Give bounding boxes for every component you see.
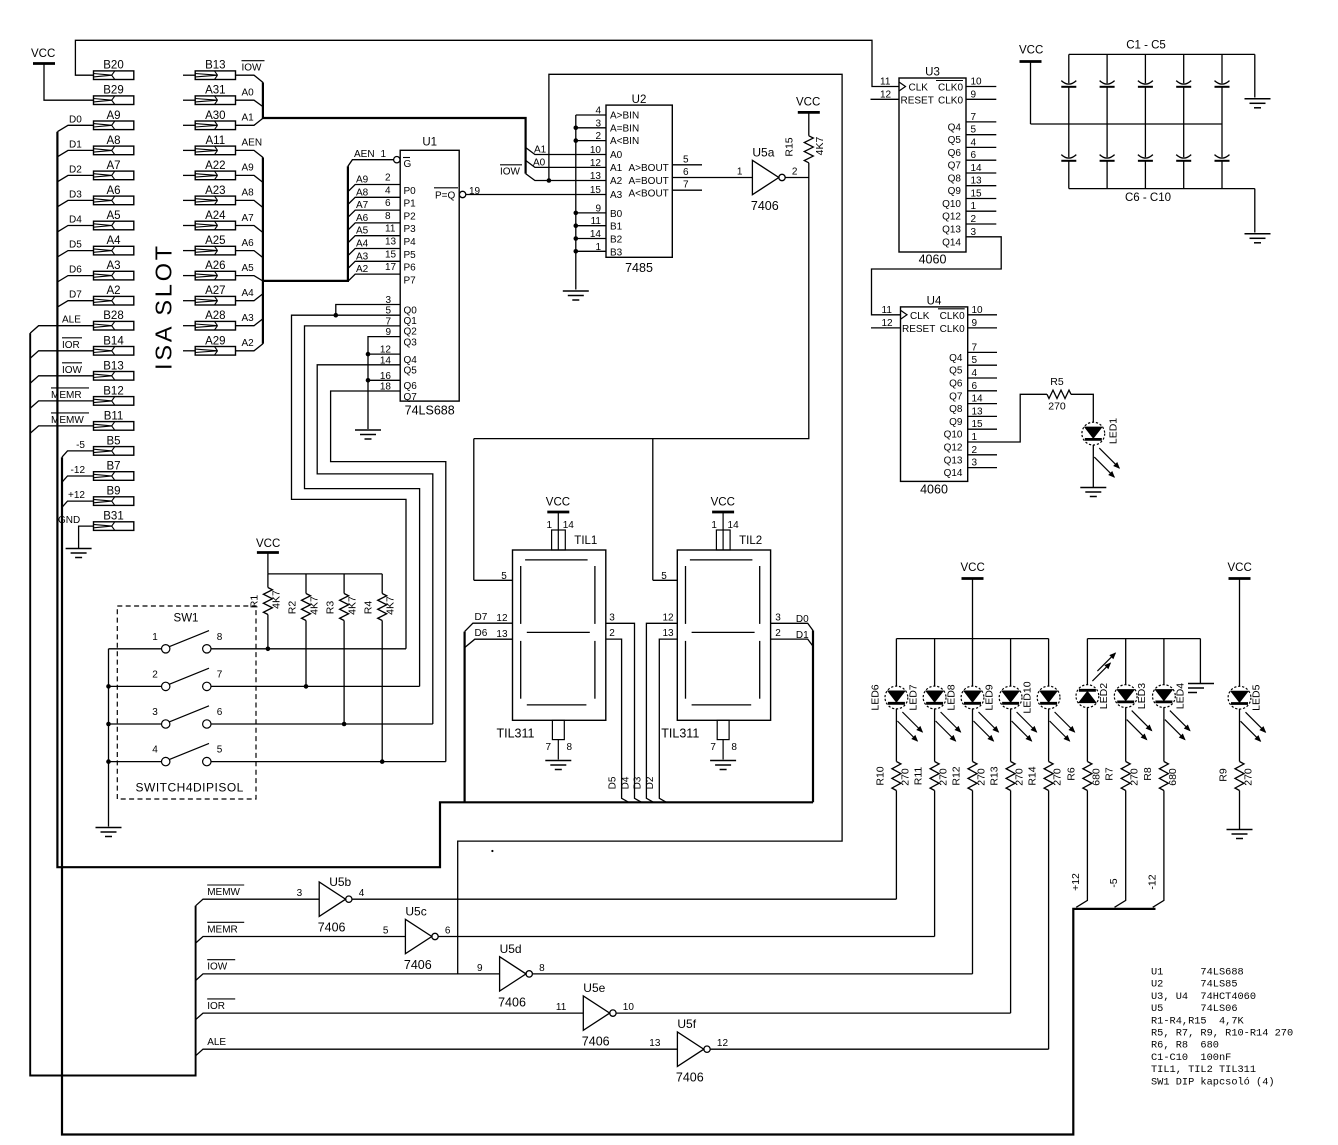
svg-text:A11: A11 <box>205 135 225 147</box>
svg-text:TIL311: TIL311 <box>497 727 535 741</box>
svg-text:A1: A1 <box>610 163 623 174</box>
wire rail to LED9 <box>1010 639 1012 687</box>
U4 pin 12 RESET stub <box>871 327 901 329</box>
svg-text:Q5: Q5 <box>949 366 963 377</box>
svg-text:Q9: Q9 <box>948 186 962 197</box>
svg-text:5: 5 <box>972 355 978 366</box>
wire A4 from pin A27 to bus2 <box>236 294 263 301</box>
svg-text:B14: B14 <box>103 335 124 347</box>
LED1 emission arrows <box>1099 448 1119 468</box>
svg-text:8: 8 <box>567 742 573 753</box>
U3 output stub pin 10 <box>966 86 996 88</box>
svg-text:D0: D0 <box>69 114 82 125</box>
bus1 exit wire A1 to U2 pin 10 <box>526 148 606 155</box>
svg-text:A3: A3 <box>610 190 623 201</box>
svg-text:5: 5 <box>501 571 507 582</box>
svg-text:7406: 7406 <box>318 921 346 935</box>
svg-text:D4: D4 <box>620 776 631 789</box>
wire U5d output to R12 <box>532 973 972 975</box>
svg-text:2: 2 <box>152 669 158 680</box>
svg-text:U5f: U5f <box>677 1017 696 1031</box>
svg-text:P4: P4 <box>404 237 417 248</box>
wire B20 to top clock line to U3 CLK <box>75 40 899 86</box>
svg-text:U4: U4 <box>927 295 942 307</box>
svg-text:1: 1 <box>595 242 601 253</box>
U4 output stub pin 3 <box>968 467 997 469</box>
svg-text:270: 270 <box>1052 768 1064 786</box>
svg-text:A24: A24 <box>205 210 226 222</box>
wire GND pin B31 to ground <box>79 526 94 548</box>
junction <box>574 236 579 241</box>
svg-text:B12: B12 <box>103 385 123 397</box>
wire TIL1 pin 3 D4 <box>606 623 642 802</box>
svg-text:A30: A30 <box>205 110 225 122</box>
data bus D0-D7 (thick): down, right, up, right <box>57 132 813 868</box>
svg-text:2: 2 <box>385 173 391 184</box>
svg-text:B13: B13 <box>103 360 123 372</box>
LED7 emission arrows <box>941 712 961 732</box>
wire D2 from pin A7 <box>57 175 93 181</box>
svg-text:15: 15 <box>972 419 984 430</box>
svg-text:Q7: Q7 <box>404 392 418 403</box>
LED6-10 anode rail <box>896 638 1048 640</box>
svg-text:10: 10 <box>971 77 983 88</box>
svg-text:2: 2 <box>971 214 977 225</box>
junction R2/row2 <box>304 684 309 689</box>
svg-text:D1: D1 <box>796 630 809 641</box>
svg-text:7406: 7406 <box>751 199 779 213</box>
wire -5 from pin B5 <box>62 451 94 457</box>
svg-text:A8: A8 <box>106 135 120 147</box>
svg-text:8: 8 <box>539 963 545 974</box>
svg-text:4: 4 <box>595 106 601 117</box>
junction <box>106 684 111 689</box>
bus wire D0/D1 vertical (thick) <box>812 631 814 803</box>
LED2-4 cathode rail to ground <box>1087 638 1200 640</box>
svg-text:A7: A7 <box>242 213 255 224</box>
resistor R2 4K7 <box>305 574 307 594</box>
wire MEMR from bundle to inverter input <box>196 937 406 944</box>
svg-text:B11: B11 <box>104 410 124 422</box>
wire A6 from pin A25 to bus2 <box>236 251 263 258</box>
ground symbol right of C6-C10 <box>1245 233 1271 235</box>
svg-text:A23: A23 <box>205 185 225 197</box>
svg-text:R14: R14 <box>1027 766 1039 785</box>
svg-text:U5b: U5b <box>329 875 351 889</box>
junction Q0/Q1 <box>334 313 339 318</box>
svg-text:Q7: Q7 <box>948 161 962 172</box>
svg-text:A2: A2 <box>242 338 255 349</box>
wire R6 to +12 bus <box>1076 791 1087 908</box>
wire TIL2 pin 12 D3 <box>646 623 677 802</box>
svg-text:7: 7 <box>683 180 689 191</box>
wire AEN to U1 pin 1 <box>348 160 394 167</box>
junction <box>574 223 579 228</box>
svg-text:-5: -5 <box>1108 878 1120 887</box>
wire LED2 to R6 <box>1086 707 1088 761</box>
wire LED1 to ground <box>1092 445 1094 487</box>
wire U4 Q12 pin 1 to R5 <box>968 394 1047 442</box>
wire SW1 common left rail to ground <box>108 649 110 827</box>
U3 output stub pin 13 <box>966 185 996 187</box>
wire D0 from pin A9 <box>57 125 93 131</box>
svg-text:AEN: AEN <box>242 138 263 149</box>
svg-text:A8: A8 <box>242 188 255 199</box>
svg-text:9: 9 <box>595 203 601 214</box>
resistor R4 4K7 <box>381 574 383 594</box>
svg-text:ISA SLOT: ISA SLOT <box>150 243 176 370</box>
SW1 dashed box <box>117 606 256 799</box>
svg-text:U5d: U5d <box>500 942 522 956</box>
wire rail to LED2 <box>1086 639 1088 685</box>
inverter U5d 7406 <box>500 957 526 991</box>
U3 output stub pin 14 <box>966 172 996 174</box>
U3 4060 counter box <box>899 78 966 252</box>
U3 clock wedge pin 11 <box>899 82 906 91</box>
bus1 IOW/A0/A1 (thick): down then right to U2 area <box>263 82 526 173</box>
svg-text:CLK: CLK <box>910 311 930 322</box>
wire D3 from pin A6 <box>57 200 93 206</box>
wire R9 to ground <box>1239 791 1241 830</box>
svg-text:Q6: Q6 <box>404 381 418 392</box>
U4 output stub pin 6 <box>968 390 997 392</box>
svg-text:CLK: CLK <box>909 83 929 94</box>
svg-text:A25: A25 <box>205 235 225 247</box>
svg-text:MEMW: MEMW <box>51 415 84 426</box>
svg-text:GND: GND <box>58 515 80 526</box>
svg-text:A0: A0 <box>533 157 546 168</box>
svg-text:1: 1 <box>971 201 977 212</box>
svg-text:A8: A8 <box>356 187 369 198</box>
wire U5f output to R14 <box>710 1048 1048 1050</box>
svg-text:A<BOUT: A<BOUT <box>629 189 669 200</box>
svg-text:8: 8 <box>217 632 223 643</box>
svg-text:1: 1 <box>737 167 743 178</box>
U3 output stub pin 15 <box>966 198 996 200</box>
svg-text:4: 4 <box>359 888 365 899</box>
switch SW1 pole 4-5 <box>162 757 170 765</box>
svg-text:A5: A5 <box>356 226 369 237</box>
svg-text:B1: B1 <box>610 222 623 233</box>
wire rail to LED6 <box>895 639 897 687</box>
svg-text:SWITCH4DIPISOL: SWITCH4DIPISOL <box>136 781 244 795</box>
svg-text:6: 6 <box>385 198 391 209</box>
svg-text:IOW: IOW <box>500 167 521 178</box>
wire rail to LED7 <box>934 639 936 687</box>
resistor R12 270 <box>968 762 977 791</box>
svg-text:R6: R6 <box>1065 767 1077 781</box>
wire U5a output rail down and left to TIL strobes <box>474 178 809 439</box>
svg-text:D0: D0 <box>796 614 809 625</box>
svg-text:VCC: VCC <box>256 538 280 550</box>
svg-text:270: 270 <box>1048 401 1066 413</box>
svg-text:VCC: VCC <box>711 497 735 509</box>
svg-text:B28: B28 <box>103 310 123 322</box>
svg-text:-5: -5 <box>76 440 85 451</box>
capacitor C7 <box>1106 124 1108 157</box>
U2 output stub pin 5 A>BOUT <box>672 164 702 166</box>
wire A30/A1 to bus1 <box>236 118 263 125</box>
junction R3/row3 <box>342 722 347 727</box>
wire LED9 to R13 <box>1010 709 1012 762</box>
svg-text:R11: R11 <box>913 767 925 786</box>
U4 4060 counter box <box>901 307 968 482</box>
svg-text:13: 13 <box>971 176 983 187</box>
TIL2 seven-segment digit <box>690 559 753 561</box>
capacitor C3 <box>1144 54 1146 83</box>
wire R11 down to inverter output <box>934 791 936 937</box>
wire switch left contact <box>109 761 162 763</box>
wire switch left contact <box>109 723 162 725</box>
svg-text:ALE: ALE <box>62 315 81 326</box>
resistor R15 4K7 pullup <box>808 112 810 135</box>
svg-text:5: 5 <box>661 571 667 582</box>
svg-text:15: 15 <box>385 249 397 260</box>
svg-text:13: 13 <box>662 628 674 639</box>
svg-text:4: 4 <box>152 745 158 756</box>
wire LED4 to R8 <box>1163 707 1165 761</box>
svg-text:9: 9 <box>477 963 483 974</box>
U1 pin 19 P=Q output bubble <box>459 191 465 197</box>
ground symbol under SW1 <box>96 827 122 829</box>
wire D4 from pin A5 <box>57 226 93 232</box>
svg-text:Q3: Q3 <box>404 337 418 348</box>
display TIL1 TIL311 box <box>513 550 606 720</box>
svg-text:IOW: IOW <box>62 365 83 376</box>
svg-text:6: 6 <box>445 926 451 937</box>
svg-text:A7: A7 <box>106 160 120 172</box>
svg-text:7406: 7406 <box>676 1071 704 1085</box>
wire MEMW from pin B11 <box>30 426 93 433</box>
wire IOR from bundle to inverter input <box>196 1013 584 1020</box>
wire TIL1 pin 13 D6 <box>465 639 513 647</box>
svg-text:B5: B5 <box>106 435 120 447</box>
wire TIL1 pin5 strobe drop <box>473 439 475 581</box>
svg-text:A6: A6 <box>356 213 369 224</box>
ground symbol under TIL1 <box>545 760 571 762</box>
LED2 emission arrows <box>1097 653 1115 671</box>
inverter U5f 7406 <box>677 1032 703 1066</box>
svg-text:3: 3 <box>297 888 303 899</box>
svg-text:A29: A29 <box>205 335 225 347</box>
wire SW1 row2 right <box>211 685 420 687</box>
svg-text:B3: B3 <box>610 247 623 258</box>
svg-text:D6: D6 <box>69 265 82 276</box>
U4 output stub pin 5 <box>968 364 997 366</box>
svg-text:11: 11 <box>591 216 602 227</box>
svg-text:11: 11 <box>556 1002 567 1013</box>
svg-text:Q10: Q10 <box>944 430 963 441</box>
svg-text:LED10: LED10 <box>1022 681 1034 713</box>
wire U2 pin 9 B0 <box>576 212 606 214</box>
wire A3 from pin A28 to bus2 <box>236 319 263 326</box>
svg-text:11: 11 <box>385 224 396 235</box>
svg-text:2: 2 <box>775 628 781 639</box>
wire LED8 to R12 <box>972 709 974 762</box>
wire A8 from pin A23 to bus2 <box>236 200 263 207</box>
ground symbol right of C1-C5 <box>1245 98 1271 100</box>
svg-text:A1: A1 <box>534 145 547 156</box>
wire U1 Q3 to ground rail <box>368 337 400 429</box>
svg-text:680: 680 <box>1090 768 1102 786</box>
svg-text:R5, R7, R9, R10-R14 270: R5, R7, R9, R10-R14 270 <box>1151 1028 1293 1040</box>
svg-text:3: 3 <box>972 458 978 469</box>
wire R10 down to inverter output <box>895 791 897 900</box>
svg-text:Q6: Q6 <box>948 148 962 159</box>
wire U3 Q14 pin3 cascade to U4 CLK pin 11 <box>872 237 1002 315</box>
svg-text:VCC: VCC <box>31 48 55 60</box>
wire SW1 row4 right <box>211 761 446 763</box>
wire TIL1 pin 2 D5 <box>606 639 629 802</box>
svg-text:A3: A3 <box>242 313 255 324</box>
capacitor C10 <box>1221 124 1223 157</box>
resistor R8 680 <box>1159 762 1168 791</box>
svg-text:6: 6 <box>972 381 978 392</box>
svg-text:MEMR: MEMR <box>207 924 238 935</box>
wire A7 from pin A24 to bus2 <box>236 226 263 233</box>
wire A7 from bus2 to U1 pin 6 (P2) <box>348 210 400 217</box>
svg-text:P3: P3 <box>404 224 417 235</box>
svg-text:14: 14 <box>728 520 740 531</box>
svg-text:1: 1 <box>381 149 387 160</box>
wire IOR from pin B14 <box>30 351 93 358</box>
wire U1 Q7 to SW1 row 4 <box>331 391 446 762</box>
svg-text:P7: P7 <box>404 275 417 286</box>
U4 output stub pin 7 <box>968 351 997 353</box>
capacitor mid rail <box>1031 123 1223 125</box>
LED2 <box>1076 685 1099 708</box>
svg-text:2: 2 <box>792 167 798 178</box>
svg-text:R1-R4,R15 4,7K: R1-R4,R15 4,7K <box>1151 1015 1245 1027</box>
switch SW1 pole 1-8 <box>162 645 170 653</box>
wire TIL2 pin 5 strobe <box>653 579 678 581</box>
svg-text:R8: R8 <box>1142 767 1154 781</box>
svg-text:270: 270 <box>1014 768 1026 786</box>
inverter U5e 7406 <box>583 996 609 1030</box>
svg-text:Q5: Q5 <box>404 366 418 377</box>
svg-text:R2: R2 <box>287 601 299 615</box>
wire U1 Q1 to SW1 row 1 <box>292 315 407 649</box>
svg-text:R7: R7 <box>1104 767 1116 781</box>
U4 output stub pin 13 <box>968 415 997 417</box>
svg-text:10: 10 <box>590 145 602 156</box>
wire R7 to -5 bus <box>1115 791 1126 908</box>
LED10 <box>1037 686 1060 709</box>
svg-text:13: 13 <box>649 1038 661 1049</box>
svg-text:B29: B29 <box>103 85 123 97</box>
svg-text:U1 74LS688: U1 74LS688 <box>1151 967 1244 979</box>
svg-text:RESET: RESET <box>902 324 935 335</box>
svg-text:5: 5 <box>683 154 689 165</box>
inverter U5b 7406 <box>319 882 345 916</box>
resistor R1 4K7 <box>267 574 269 588</box>
junction <box>574 126 579 131</box>
svg-text:A27: A27 <box>205 285 225 297</box>
svg-text:LED1: LED1 <box>1108 418 1120 444</box>
wire VCC to R1-R4 rail <box>267 553 269 574</box>
svg-text:5: 5 <box>217 745 223 756</box>
svg-text:U5a: U5a <box>752 146 774 160</box>
wire ALE from bundle to inverter input <box>196 1049 678 1056</box>
wire ALE from pin B28 <box>30 326 93 333</box>
svg-text:B2: B2 <box>610 235 623 246</box>
inverter U5c 7406 <box>405 919 431 953</box>
resistor R9 270 <box>1235 762 1244 791</box>
svg-text:B9: B9 <box>106 486 120 498</box>
svg-text:4K7: 4K7 <box>385 596 397 615</box>
svg-text:12: 12 <box>590 158 602 169</box>
wire U2 pin 2 <box>576 140 606 142</box>
junction <box>574 138 579 143</box>
svg-text:MEMW: MEMW <box>207 887 240 898</box>
svg-text:A22: A22 <box>205 160 225 172</box>
svg-text:B0: B0 <box>610 209 623 220</box>
svg-text:A>BIN: A>BIN <box>610 111 639 122</box>
capacitor C5 <box>1221 54 1223 83</box>
svg-text:6: 6 <box>971 150 977 161</box>
svg-text:7: 7 <box>217 669 223 680</box>
wire U5a output to rail <box>785 177 809 179</box>
svg-text:Q2: Q2 <box>404 327 418 338</box>
wire U2 pin 1 B3 <box>576 250 606 252</box>
svg-text:CLK0: CLK0 <box>938 83 963 94</box>
svg-text:CLK0: CLK0 <box>940 324 965 335</box>
svg-text:IOR: IOR <box>62 340 80 351</box>
svg-text:+12: +12 <box>68 490 85 501</box>
svg-text:D1: D1 <box>69 139 82 150</box>
wire U5b output to R10 <box>352 898 896 900</box>
U3 output stub pin 4 <box>966 146 996 148</box>
svg-text:3: 3 <box>152 707 158 718</box>
wire TIL2 pin 2 D1 <box>771 639 813 646</box>
svg-text:D2: D2 <box>69 164 82 175</box>
svg-text:LED6: LED6 <box>869 684 881 710</box>
resistor R3 4K7 <box>343 574 345 594</box>
wire IOW node up over to U5d input (long rail) <box>458 74 842 974</box>
inverter U5a 7406 <box>752 160 778 194</box>
svg-text:P0: P0 <box>404 186 417 197</box>
LED4 emission arrows <box>1170 711 1190 731</box>
svg-text:IOW: IOW <box>207 962 228 973</box>
svg-text:A2: A2 <box>106 285 120 297</box>
LED9 emission arrows <box>1017 712 1037 732</box>
wire U2 pin 6 to U5a input <box>702 177 752 179</box>
U2 ground rail vertical <box>575 115 577 290</box>
svg-text:7406: 7406 <box>582 1035 610 1049</box>
svg-text:4K7: 4K7 <box>270 590 282 609</box>
svg-text:P6: P6 <box>404 263 417 274</box>
svg-text:Q7: Q7 <box>949 391 963 402</box>
svg-text:74LS688: 74LS688 <box>405 404 455 418</box>
svg-text:MEMR: MEMR <box>51 390 82 401</box>
TIL2 top pin stub 1|14 <box>716 530 730 550</box>
wire A6 from bus2 to U1 pin 8 (P3) <box>348 223 400 230</box>
ground symbol under U2 <box>563 290 589 292</box>
svg-text:Q5: Q5 <box>948 135 962 146</box>
U3 output stub pin 7 <box>966 121 996 123</box>
svg-text:A2: A2 <box>356 264 369 275</box>
svg-text:3: 3 <box>775 612 781 623</box>
wire R8 to -12 bus <box>1153 791 1164 908</box>
wire switch left contact <box>109 648 162 650</box>
svg-text:7: 7 <box>972 342 978 353</box>
wire A31/A0 to bus1 <box>236 100 263 106</box>
TIL1 top pin stub 1|14 <box>552 530 566 550</box>
LED3 emission arrows <box>1132 711 1152 731</box>
wire D7 from pin A2 <box>57 301 93 307</box>
wire U1 Q0 to Q1 node <box>336 305 400 316</box>
U3 output stub pin 5 <box>966 134 996 136</box>
